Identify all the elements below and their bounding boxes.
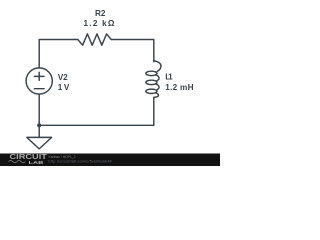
- wire bottom horizontal: [39, 124, 154, 126]
- node junction dot: [37, 123, 41, 127]
- svg-text:V2: V2: [58, 73, 68, 82]
- wire left vertical lower: [38, 94, 40, 137]
- wire top-left horizontal: [39, 40, 78, 68]
- svg-text:L1: L1: [165, 73, 173, 82]
- inductor L1: [154, 61, 161, 72]
- wire right vertical lower: [153, 97, 155, 125]
- logo wave: [9, 160, 26, 162]
- svg-text:LAB: LAB: [29, 159, 44, 165]
- watermark bar: [0, 153, 220, 166]
- svg-text:Kanban / HDP1_2: Kanban / HDP1_2: [49, 154, 76, 158]
- resistor R2: [78, 34, 111, 45]
- voltage source V2: [26, 68, 52, 94]
- svg-text:1.2 mH: 1.2 mH: [165, 83, 193, 92]
- svg-text:http://circuitlab.com/c/5vebbu: http://circuitlab.com/c/5vebbunb48: [49, 159, 112, 163]
- wire top-right horizontal: [111, 40, 154, 62]
- svg-text:1 V: 1 V: [58, 83, 70, 92]
- svg-text:R2: R2: [95, 9, 106, 18]
- labels: [58, 9, 194, 92]
- ground: [27, 137, 52, 149]
- svg-text:1.2 kΩ: 1.2 kΩ: [84, 19, 115, 28]
